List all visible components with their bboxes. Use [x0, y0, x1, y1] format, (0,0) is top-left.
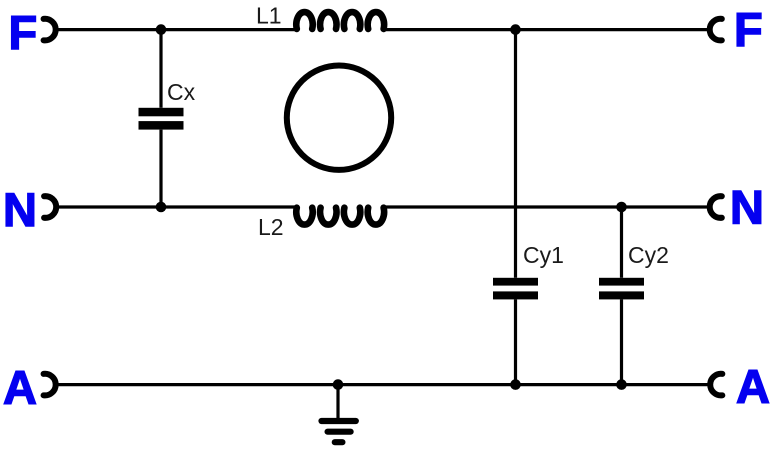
- svg-text:Cx: Cx: [167, 79, 196, 105]
- node junction Cy1-F: [510, 24, 521, 35]
- svg-text:Cy2: Cy2: [628, 242, 669, 268]
- terminal A right: [710, 360, 770, 413]
- node junction Cy1-A: [510, 379, 521, 390]
- choke core circle: [287, 66, 391, 170]
- svg-text:A: A: [736, 360, 770, 413]
- node junction Cy2-A: [616, 379, 627, 390]
- svg-text:N: N: [730, 181, 764, 234]
- node junction ground-A: [333, 379, 344, 390]
- terminal A left: [3, 361, 56, 414]
- node junction Cx-N: [156, 202, 167, 213]
- terminal N left: [3, 183, 56, 236]
- inductor L1: [256, 3, 384, 29]
- inductor L2: [258, 208, 384, 240]
- capacitor Cy2: [599, 242, 669, 299]
- wire Cy2 vertical branch: [620, 207, 623, 385]
- svg-text:L2: L2: [258, 214, 284, 240]
- terminal F left: [9, 6, 56, 59]
- terminal N right: [710, 181, 764, 234]
- svg-text:A: A: [3, 361, 37, 414]
- wire F line (top): [56, 28, 709, 31]
- svg-text:F: F: [9, 6, 38, 59]
- ground: [322, 385, 356, 443]
- svg-text:Cy1: Cy1: [523, 242, 564, 268]
- svg-text:F: F: [734, 3, 763, 56]
- wire A line (bottom): [56, 383, 710, 386]
- node junction Cx-F: [156, 24, 167, 35]
- node junction Cy2-N: [616, 202, 627, 213]
- capacitor Cy1: [493, 242, 564, 299]
- wire N line (middle): [57, 205, 710, 208]
- wire Cx vertical branch: [159, 30, 162, 207]
- svg-text:N: N: [3, 183, 37, 236]
- svg-text:L1: L1: [256, 3, 282, 29]
- terminal F right: [710, 3, 763, 56]
- capacitor Cx: [139, 79, 196, 130]
- wire Cy1 vertical branch: [514, 30, 517, 385]
